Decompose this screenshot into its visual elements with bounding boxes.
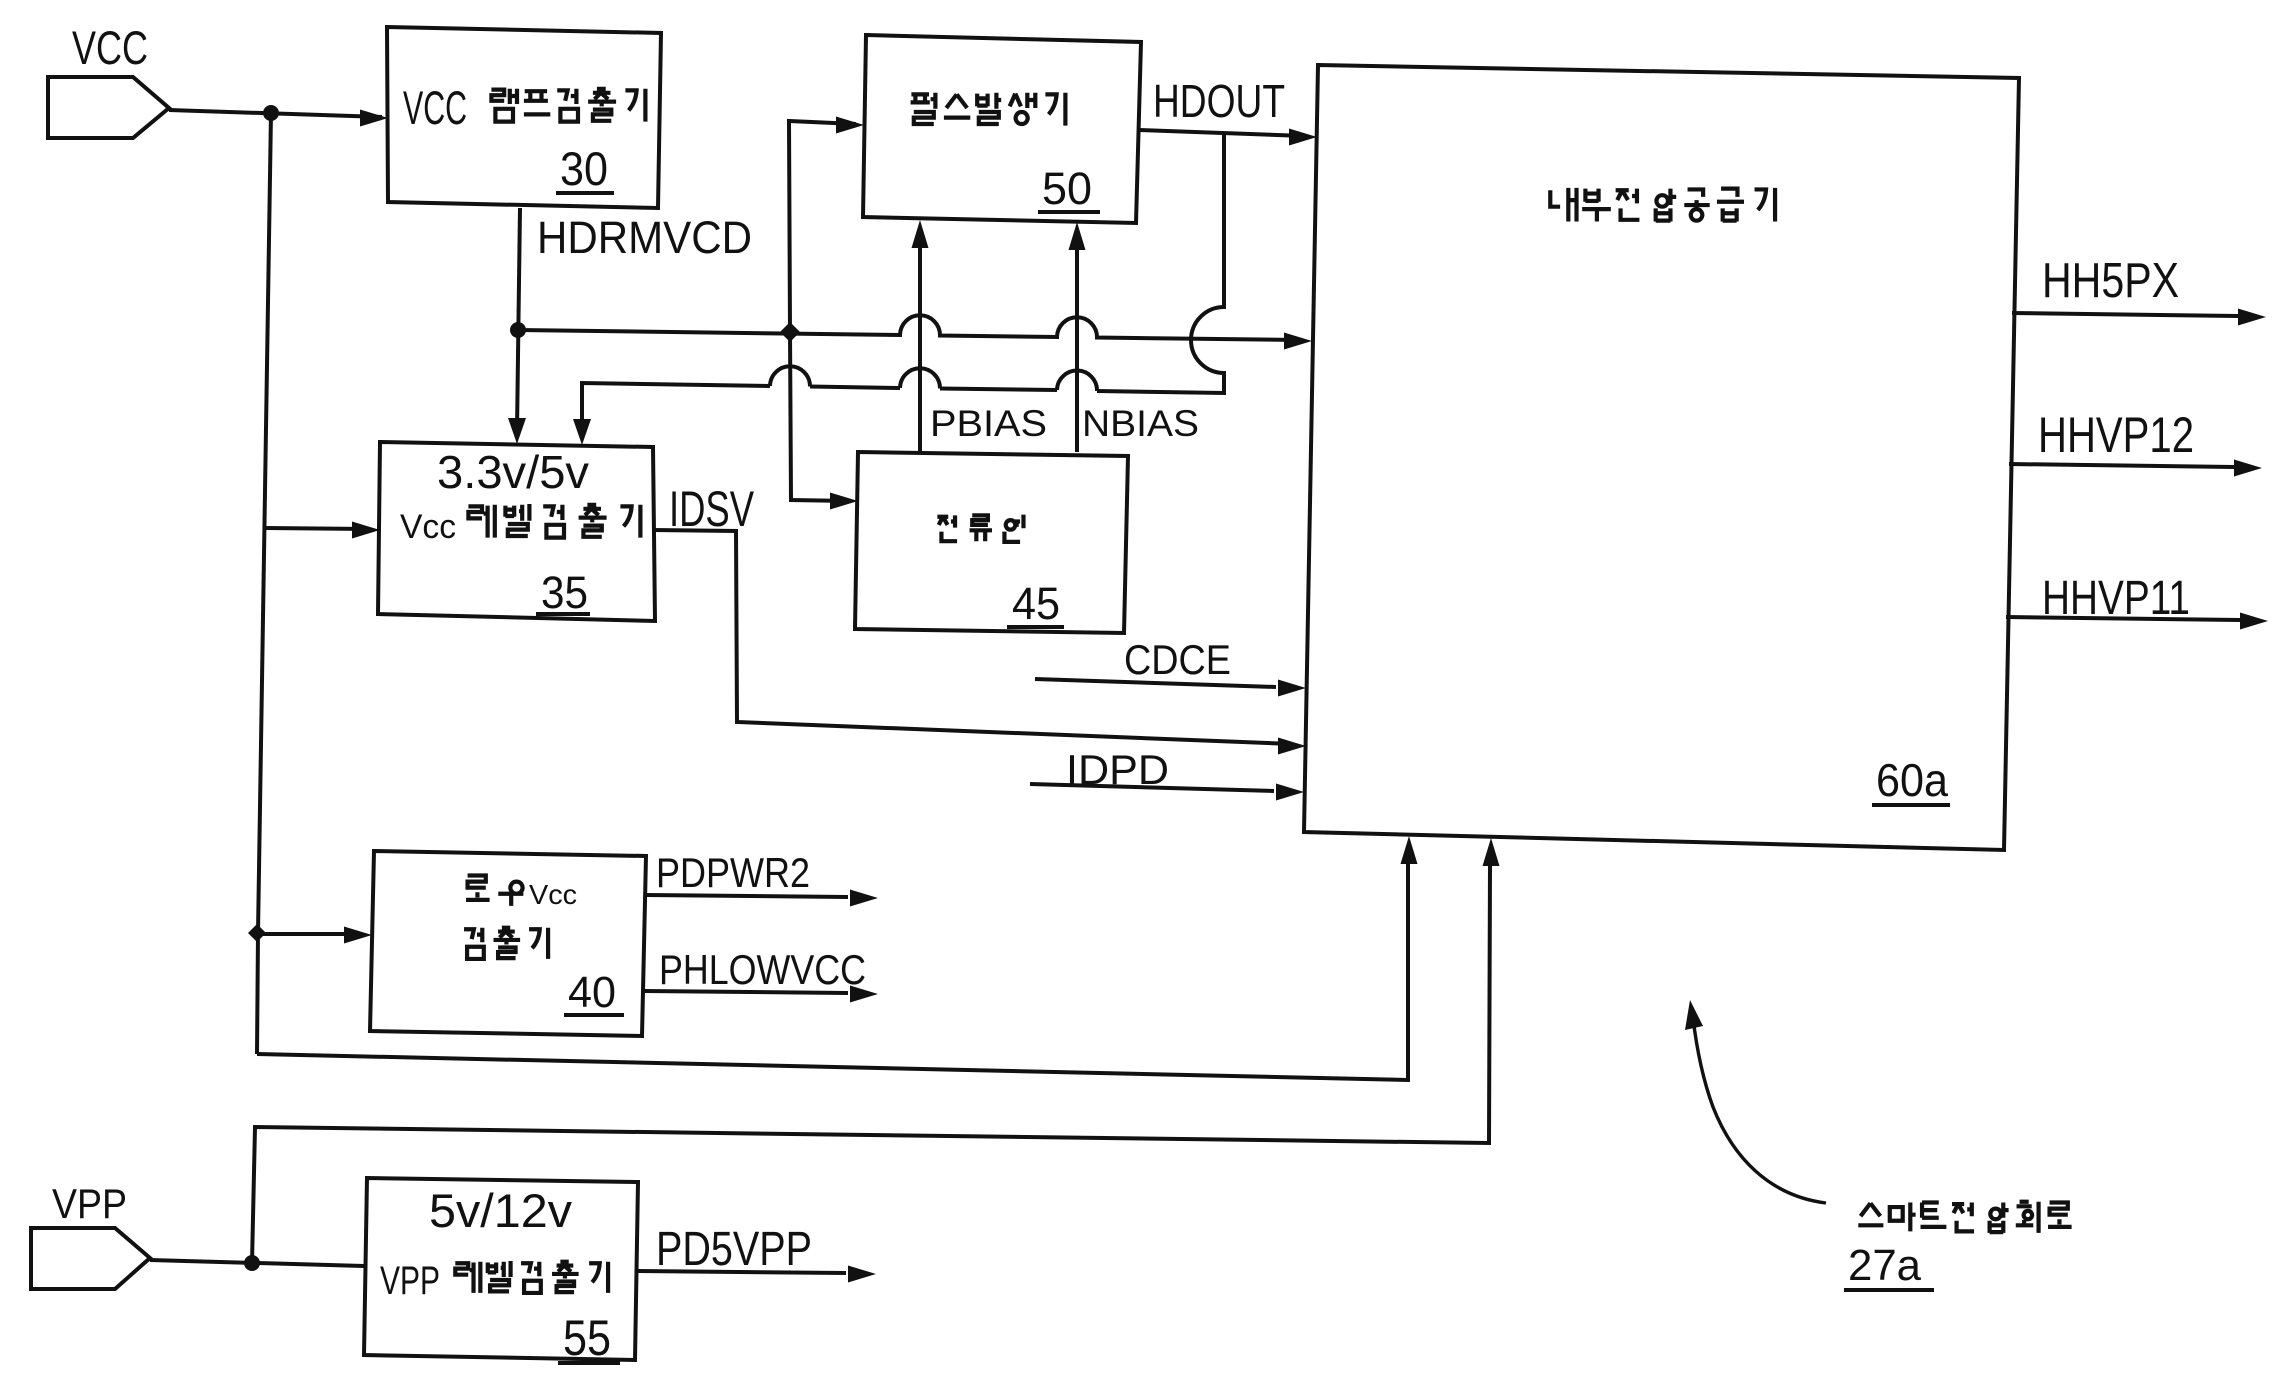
label detector (Korean): [464, 928, 548, 959]
label IDSV: [669, 481, 754, 537]
wire NBIAS vertical into block 50: [1069, 222, 1086, 452]
label 45 underlined: [1007, 578, 1064, 629]
svg-text:VPP: VPP: [380, 1259, 440, 1303]
node junction dot on VPP wire: [244, 1255, 260, 1271]
wire PHLOWVCC output: [644, 986, 878, 1003]
label PD5VPP: [656, 1223, 812, 1276]
label CDCE: [1124, 636, 1231, 683]
wire PDPWR2 output: [646, 890, 878, 907]
node junction dot on VCC wire: [263, 105, 279, 121]
label pulse generator (Korean): [911, 93, 1066, 126]
block 50 pulse generator box: [863, 35, 1141, 223]
label 27a underlined: [1844, 1241, 1934, 1290]
node VCC label: [72, 21, 148, 74]
wire VCC pad to block 30: [169, 110, 388, 127]
label HDRMVCD: [537, 212, 752, 263]
node junction diamond on VCC rail at block 40: [248, 924, 266, 942]
wire VCC feedback to internal supply bottom (first): [257, 836, 1418, 1080]
svg-text:IDSV: IDSV: [669, 481, 754, 537]
label 5v/12v: [429, 1184, 573, 1237]
svg-text:5v/12v: 5v/12v: [429, 1184, 573, 1237]
wire HHVP11 output: [2006, 613, 2268, 630]
svg-text:HH5PX: HH5PX: [2042, 254, 2179, 308]
svg-text:30: 30: [560, 142, 608, 195]
label 55 underlined: [558, 1310, 620, 1366]
label PHLOWVCC: [659, 946, 866, 993]
svg-text:PBIAS: PBIAS: [930, 403, 1047, 444]
label current source (Korean): [937, 515, 1023, 542]
wire HDOUT feedback drop with hop over feed line: [573, 133, 1224, 445]
VCC pad (input terminal): [48, 77, 169, 138]
pointer arrow to smart voltage circuit label: [1685, 1000, 1826, 1203]
label VCC ramp detector (Korean): [403, 81, 645, 134]
wire PBIAS vertical into block 50: [912, 220, 929, 452]
node junction diamond at pulse-generator branch: [780, 322, 800, 342]
svg-text:VPP: VPP: [52, 1180, 127, 1227]
svg-text:Vcc: Vcc: [529, 879, 577, 910]
svg-text:40: 40: [568, 968, 616, 1017]
wire VCC vertical rail down left side: [257, 113, 271, 1054]
wire VPP feedback to internal supply bottom (second): [252, 838, 1500, 1263]
wire HHVP12 output: [2009, 460, 2262, 477]
wire VCC rail feed into block 35: [265, 522, 380, 539]
wire feed into block 40: [257, 927, 372, 944]
wire branch up into pulse generator 50: [789, 117, 864, 333]
wire IDSV from block 35 to internal voltage supply: [653, 530, 1306, 755]
label HHVP11: [2042, 572, 2190, 625]
wire HDOUT from block 50 to internal voltage supply: [1139, 129, 1317, 146]
label smart voltage circuit (Korean): [1858, 1202, 2071, 1233]
svg-text:HHVP12: HHVP12: [2038, 407, 2194, 463]
block 30 VCC ramp detector box: [387, 27, 661, 208]
label PBIAS: [930, 403, 1047, 444]
label 50 underlined: [1038, 163, 1100, 214]
wire CDCE into internal voltage supply: [1035, 679, 1306, 697]
svg-text:VCC: VCC: [72, 21, 148, 74]
svg-text:NBIAS: NBIAS: [1082, 403, 1199, 444]
block 35 Vcc level detector box: [378, 442, 655, 621]
svg-text:45: 45: [1012, 578, 1060, 629]
svg-text:Vcc: Vcc: [400, 508, 456, 546]
wire HDRMVCD feed to internal voltage supply (with hops): [518, 315, 1312, 349]
block 55 VPP level detector box: [364, 1178, 638, 1360]
wire VPP pad to block 55: [150, 1260, 364, 1266]
label 3.3v/5v: [437, 446, 589, 498]
svg-text:HDOUT: HDOUT: [1153, 75, 1285, 127]
label PDPWR2: [656, 849, 810, 896]
svg-text:IDPD: IDPD: [1066, 746, 1169, 793]
wire PD5VPP output: [638, 1266, 876, 1283]
label Vcc level detector (Korean): [400, 504, 640, 546]
label 35 underlined: [536, 567, 590, 618]
node VPP label: [52, 1180, 127, 1227]
block 45 current source box: [855, 452, 1128, 633]
label low Vcc (Korean): [466, 876, 577, 910]
svg-text:PDPWR2: PDPWR2: [656, 849, 810, 896]
svg-text:3.3v/5v: 3.3v/5v: [437, 446, 589, 498]
label 60a underlined: [1872, 754, 1950, 806]
svg-text:27a: 27a: [1848, 1241, 1922, 1290]
svg-text:50: 50: [1042, 163, 1092, 214]
svg-text:VCC: VCC: [403, 81, 467, 134]
wire HH5PX output: [2012, 309, 2266, 326]
label HHVP12: [2038, 407, 2194, 463]
svg-text:55: 55: [563, 1310, 611, 1366]
svg-text:PHLOWVCC: PHLOWVCC: [659, 946, 866, 993]
wire branch down into current source 45: [790, 332, 858, 510]
VPP pad (input terminal): [31, 1228, 150, 1289]
svg-text:HHVP11: HHVP11: [2042, 572, 2190, 625]
svg-text:PD5VPP: PD5VPP: [656, 1223, 812, 1276]
block 60a internal voltage supply box: [1304, 65, 2019, 850]
label IDPD: [1066, 746, 1169, 793]
svg-text:CDCE: CDCE: [1124, 636, 1231, 683]
label 40 underlined: [564, 968, 624, 1017]
label HDOUT: [1153, 75, 1285, 127]
label internal voltage supply (Korean): [1550, 188, 1775, 222]
label 30 underlined: [556, 142, 614, 195]
svg-text:60a: 60a: [1876, 754, 1948, 806]
svg-text:HDRMVCD: HDRMVCD: [537, 212, 752, 263]
label HH5PX: [2042, 254, 2179, 308]
node junction dot HDRMVCD: [510, 322, 526, 338]
block 40 low-Vcc detector box: [370, 851, 646, 1036]
svg-text:35: 35: [541, 567, 588, 618]
wire HDRMVCD from block 30 down to block 35: [508, 208, 526, 444]
wire IDPD into internal voltage supply: [1030, 784, 1304, 801]
label VPP level detector (Korean): [380, 1259, 608, 1303]
label NBIAS: [1082, 403, 1199, 444]
